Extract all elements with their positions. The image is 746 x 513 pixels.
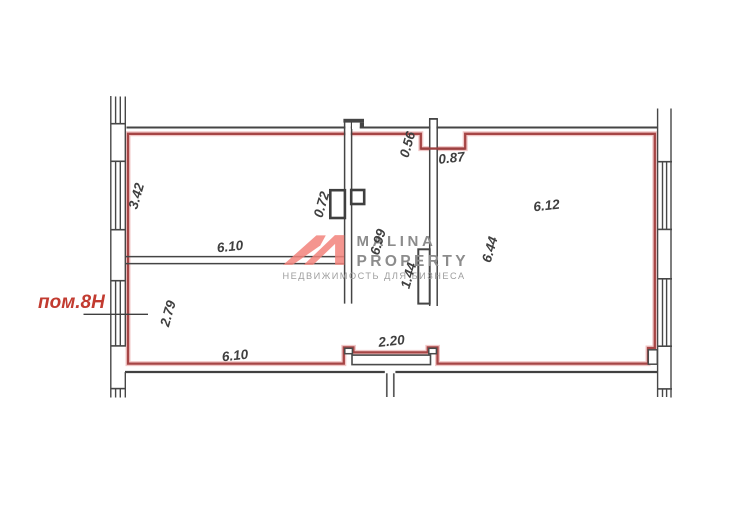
bottom-right corner square: [648, 350, 657, 364]
red room boundary пом.8Н: [128, 134, 655, 364]
svg-text:6.10: 6.10: [216, 238, 244, 256]
top exterior wall line: [127, 127, 658, 129]
inner line: [124, 97, 126, 347]
interior wall 1 (vertical, x~348): [345, 120, 352, 304]
opening 2.20: threshold rectangle: [352, 355, 431, 365]
niche bottom red line (redrawn over wall): [421, 147, 465, 149]
left wall caps: [111, 124, 126, 389]
window hatch lines: [115, 97, 117, 124]
interior wall 2 (vertical, x~433): [429, 119, 438, 306]
svg-text:6.12: 6.12: [533, 197, 561, 215]
svg-text:НЕДВИЖИМОСТЬ ДЛЯ БИЗНЕСА: НЕДВИЖИМОСТЬ ДЛЯ БИЗНЕСА: [283, 271, 466, 281]
outer line: [670, 109, 672, 398]
window hatch lines: [662, 162, 664, 229]
svg-text:6.10: 6.10: [221, 347, 249, 365]
ventilation box right of wall 1: [351, 190, 364, 204]
right wall caps: [658, 162, 673, 389]
inner line: [657, 109, 659, 398]
room label leader line: [84, 313, 149, 315]
lower middle wall below opening: [387, 373, 394, 397]
bottom exterior wall line (right span): [395, 371, 657, 373]
outer line: [110, 96, 112, 398]
interior wall 1 top staple stub: [343, 119, 364, 129]
svg-text:0.87: 0.87: [438, 149, 467, 167]
watermark logo stripe A: [283, 235, 326, 265]
interior horizontal wall (y~260): [126, 257, 345, 264]
svg-text:пом.8Н: пом.8Н: [38, 292, 106, 313]
ventilation box left of wall 1: [330, 190, 345, 218]
dimension labels: [125, 129, 560, 364]
watermark logo stripe B with right bar: [304, 235, 345, 265]
bottom exterior wall line (left span): [125, 371, 385, 373]
opening 2.20: right jamb square: [429, 348, 437, 353]
door leaf rectangle on interior wall 2: [418, 249, 429, 303]
right exterior wall: [658, 109, 671, 398]
left exterior wall: [111, 96, 126, 398]
svg-text:2.20: 2.20: [377, 332, 406, 350]
opening 2.20: left jamb square: [345, 348, 353, 353]
